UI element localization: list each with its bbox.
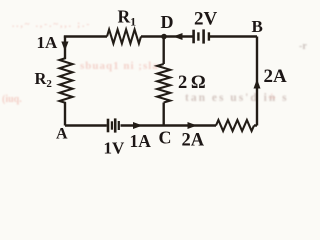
svg-text:A: A	[56, 126, 68, 143]
current arrow 1A (right) on bottom wire	[133, 122, 143, 129]
current arrow 1A (down) on left wire	[61, 42, 68, 52]
node D (junction dot)	[161, 34, 167, 40]
svg-text:..,~ .,-.~,,. ;.-: ..,~ .,-.~,,. ;.-	[12, 19, 91, 29]
battery 2V	[194, 29, 209, 43]
current arrow (left) from battery 2V toward node D	[173, 33, 183, 40]
resistor 2 ohm	[157, 64, 170, 103]
page background	[0, 0, 308, 161]
faint bleed-through text smudges	[2, 19, 307, 105]
wire left side lower (R2 to A)	[64, 103, 66, 126]
wire bottom-right corner to resistor	[254, 124, 257, 126]
wire battery 2V to corner B	[210, 35, 257, 37]
svg-text:B: B	[252, 17, 263, 36]
current arrow 2A (right) on bottom wire	[188, 122, 198, 129]
resistor R1	[107, 30, 141, 44]
svg-text:2 Ω: 2 Ω	[178, 73, 205, 93]
svg-text:.;,: .;,	[268, 90, 276, 100]
svg-text:2A: 2A	[264, 66, 288, 87]
wire middle branch lower (2-ohm to C)	[162, 103, 164, 126]
svg-text:C: C	[159, 128, 172, 148]
wire battery 1V to corner A	[65, 124, 107, 126]
wire middle branch upper (D to 2-ohm)	[162, 37, 164, 65]
battery 1V	[108, 118, 119, 132]
svg-text:sbuaq1 ni ;sla: sbuaq1 ni ;sla	[80, 60, 159, 72]
wire top-left segment	[65, 37, 107, 38]
wire R1 to node D	[141, 35, 164, 37]
current arrow 2A (up) on right wire	[254, 79, 261, 89]
resistor R2	[60, 58, 73, 103]
svg-text:1A: 1A	[37, 33, 59, 52]
svg-text:1A: 1A	[130, 131, 152, 151]
resistor bottom (unlabeled)	[216, 120, 254, 131]
wire right side (B down to bottom-right corner)	[256, 37, 258, 126]
svg-text:D: D	[161, 12, 174, 32]
svg-text:2A: 2A	[182, 131, 205, 151]
svg-text:1V: 1V	[104, 139, 126, 158]
svg-text:(iuq.: (iuq.	[2, 94, 22, 105]
svg-text:2V: 2V	[194, 9, 218, 30]
wire node D to battery 2V	[164, 35, 193, 37]
wire bottom middle (C to resistor)	[121, 124, 217, 126]
wire left side upper (top-left corner to R2)	[64, 37, 66, 59]
svg-text:-r: -r	[299, 41, 307, 52]
